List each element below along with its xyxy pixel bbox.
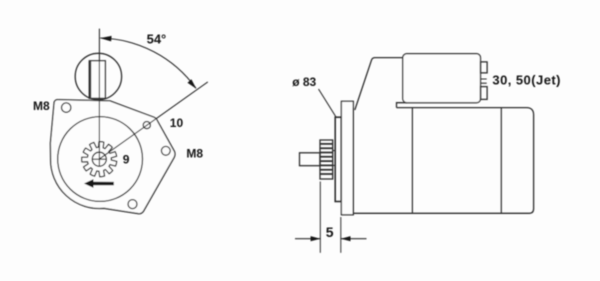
leader line dia 83 [319,89,337,117]
rotation arrow [84,179,114,188]
svg-text:ø 83: ø 83 [292,75,316,89]
terminal 50 lower [481,87,488,100]
yoke seam right [500,108,502,214]
svg-text:M8: M8 [186,146,203,160]
svg-text:10: 10 [170,116,184,130]
vertical centerline [98,29,100,166]
mounting plate edge [341,101,353,215]
gear hub circle [92,152,106,166]
svg-text:5: 5 [326,224,334,240]
pinion spline lines [320,144,333,174]
svg-text:30, 50(Jet): 30, 50(Jet) [492,72,561,87]
terminal 30 upper [481,62,488,73]
bolt hole M8 top-left [61,103,70,112]
bolt hole bottom [128,200,137,209]
svg-text:54°: 54° [147,32,167,47]
dimension line 5 right segment [341,238,367,240]
dimension arrow left [311,236,321,241]
arc arrowhead right [188,79,197,89]
terminal stud rectangle [89,61,105,99]
54 deg dimension arc [100,38,196,88]
shaft stub lines [333,151,336,166]
solenoid bracket [397,103,408,108]
dimension arrow right [341,236,351,241]
yoke seam left [411,108,413,214]
pinion gear front view [82,142,117,177]
pilot circle [58,117,143,202]
gear center horizontal tick [92,158,107,160]
extension line right [340,217,342,253]
hole 10 [143,122,150,129]
collar ring [335,117,341,201]
svg-text:9: 9 [123,152,130,166]
arc arrowhead top [100,36,112,42]
terminal stud left edge thick [89,62,91,98]
motor body [353,108,533,214]
dimension line 5 left segment [295,238,320,240]
solenoid side view [403,54,481,103]
drive housing slant [355,58,403,110]
svg-text:M8: M8 [33,99,50,113]
diagonal 54 deg line [99,82,207,159]
pinion side view [320,140,333,179]
flange outline [50,100,175,214]
solenoid front circle [75,53,121,99]
terminal tab middle [481,79,487,83]
extension line left [319,182,321,253]
bolt hole M8 right [161,146,170,155]
shaft side view [300,153,321,166]
